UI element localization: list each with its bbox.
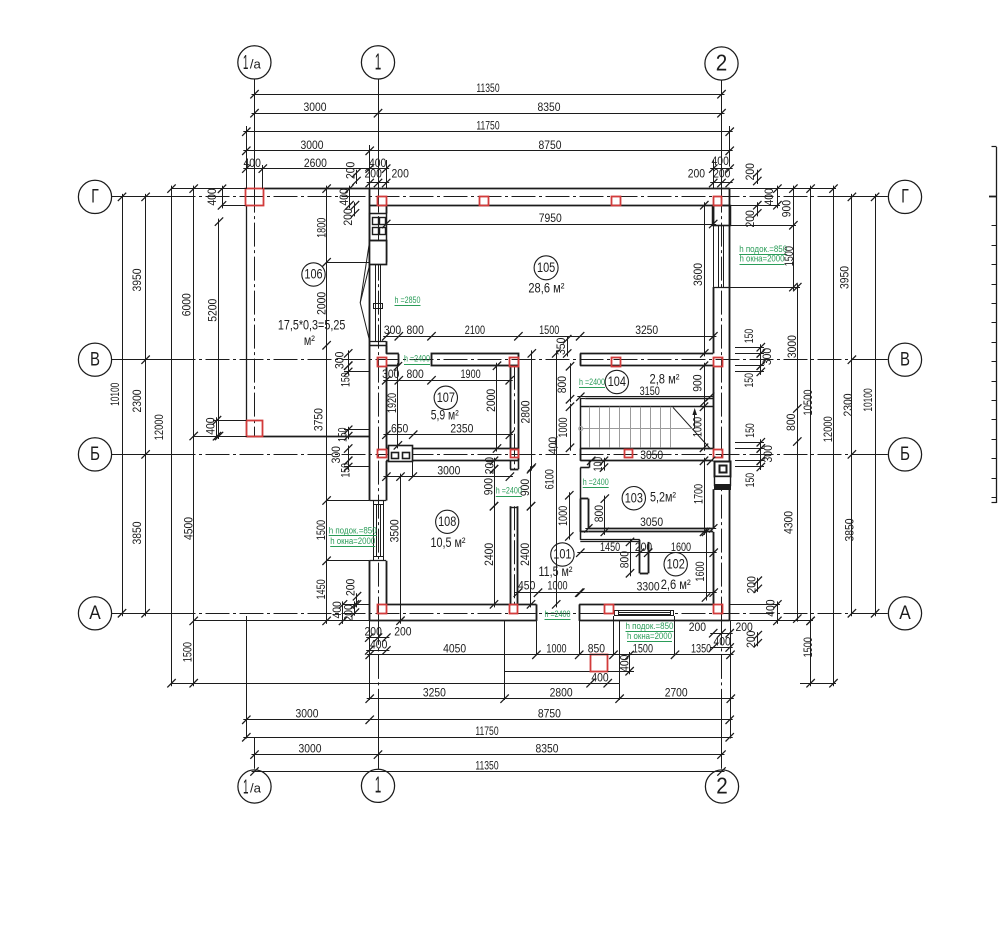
svg-text:100: 100 [591, 457, 605, 472]
axis bubble 1/a bottom [238, 770, 271, 803]
dim 400 porch col vertical [617, 651, 633, 676]
axis bubble В right [888, 343, 921, 376]
terrace bottom edge [247, 436, 370, 438]
dim 11750 bottom [242, 724, 734, 741]
vent shaft in Б wall [389, 446, 413, 462]
svg-text:11,5 м²: 11,5 м² [539, 564, 573, 579]
svg-text:300: 300 [384, 323, 402, 337]
dim 300 wall Б right [757, 444, 776, 465]
svg-text:h окна=2000: h окна=2000 [330, 536, 375, 547]
dim 900 room104 right [691, 362, 709, 407]
svg-text:1600: 1600 [671, 540, 691, 554]
svg-text:400: 400 [337, 188, 351, 206]
svg-text:10,5 м²: 10,5 м² [431, 535, 466, 550]
svg-text:3000: 3000 [304, 100, 327, 114]
dim 3150 stairs [576, 384, 714, 401]
dim 11350 top [250, 81, 725, 98]
svg-text:1600: 1600 [693, 561, 707, 581]
wall 101-102 divider band [580, 540, 640, 542]
svg-text:h =2400: h =2400 [583, 477, 609, 488]
svg-text:900: 900 [780, 200, 794, 218]
extension lines top [247, 96, 730, 189]
svg-text:200: 200 [689, 620, 707, 634]
svg-text:1: 1 [375, 48, 382, 74]
svg-text:2800: 2800 [550, 686, 573, 700]
svg-text:Г: Г [91, 187, 99, 208]
axis line Б [111, 454, 888, 456]
svg-text:h =2400: h =2400 [404, 354, 430, 365]
dim row В top 300..3250 [382, 323, 718, 340]
axis bubble 1/a top [238, 46, 271, 79]
svg-text:12000: 12000 [821, 416, 835, 442]
wall room103 left stub [580, 499, 588, 532]
dim 5200 left [205, 217, 223, 440]
svg-text:1500: 1500 [314, 520, 328, 540]
terrace area formula [278, 318, 346, 349]
porch outline [505, 621, 620, 683]
svg-text:Б: Б [90, 444, 100, 465]
column at А window pier [605, 605, 614, 614]
svg-text:900: 900 [518, 479, 532, 497]
svg-text:300: 300 [761, 445, 775, 463]
dim 200 left of wall1 top [343, 161, 360, 185]
wall Б segment left [386, 449, 519, 461]
axis bubble 1 bottom [361, 769, 394, 802]
wall centerline x514 [514, 366, 516, 605]
wall room108 right door cap [510, 507, 518, 509]
wall В segment 3250 [580, 353, 713, 365]
svg-text:3050: 3050 [640, 515, 663, 529]
svg-text:1500: 1500 [180, 642, 194, 662]
note h podok left [329, 525, 377, 536]
svg-text:300: 300 [332, 351, 346, 369]
svg-text:8750: 8750 [538, 707, 561, 721]
svg-text:2: 2 [716, 772, 728, 798]
dim 6100 corridor [543, 349, 561, 608]
room 105 label [528, 256, 564, 296]
column 400x400 at 1/a-Г [246, 189, 264, 206]
dim 3950+2300+3850 right [838, 193, 857, 618]
svg-text:1000: 1000 [546, 642, 566, 656]
axis line 1/a [254, 78, 256, 769]
column at Г axis2 [714, 197, 722, 206]
room 108 label [431, 510, 466, 550]
svg-text:200: 200 [744, 576, 758, 594]
dim 150 below В left [339, 362, 353, 387]
column at Г mid-left [480, 197, 489, 206]
dim 11750 top [242, 119, 734, 136]
svg-text:3050: 3050 [640, 448, 663, 462]
stair landing edge [580, 399, 713, 407]
svg-text:200: 200 [743, 210, 757, 228]
svg-text:400: 400 [617, 654, 631, 672]
svg-text:1000: 1000 [556, 417, 570, 437]
terrace left edge [246, 205, 248, 436]
svg-text:400: 400 [203, 417, 217, 435]
svg-text:3250: 3250 [635, 323, 658, 337]
svg-text:800: 800 [555, 376, 569, 394]
dim 900+1500 right of wall2 [780, 184, 798, 291]
svg-text:3000: 3000 [299, 741, 322, 755]
wall Б segment right [580, 449, 713, 461]
axis line А [111, 613, 888, 615]
svg-text:3250: 3250 [423, 686, 446, 700]
svg-text:150: 150 [742, 373, 756, 388]
svg-text:8750: 8750 [539, 138, 562, 152]
dim 11350 bottom [250, 758, 725, 775]
svg-text:800: 800 [784, 413, 798, 431]
svg-text:h окна=2000: h окна=2000 [740, 254, 785, 265]
axis bubble Б right [888, 438, 921, 471]
wall axis-1 (left exterior) [370, 189, 387, 621]
room 104 label [605, 370, 680, 393]
table edge right margin [989, 147, 997, 504]
svg-text:1900: 1900 [461, 367, 481, 381]
dim 400 wall Г right [762, 184, 781, 209]
svg-text:А: А [89, 603, 101, 624]
svg-text:102: 102 [667, 556, 685, 571]
svg-text:11350: 11350 [476, 81, 499, 95]
svg-text:1450: 1450 [314, 579, 328, 599]
dim 2400 wall108 right [518, 502, 535, 609]
column at В x514 [510, 358, 519, 367]
svg-text:2100: 2100 [465, 323, 485, 337]
svg-text:800: 800 [592, 505, 606, 523]
dim 10100 right [861, 193, 879, 618]
svg-text:450: 450 [518, 579, 536, 593]
svg-text:/а: /а [250, 781, 262, 796]
axis line 2 [721, 79, 723, 769]
svg-text:200: 200 [394, 624, 412, 638]
svg-text:28,6 м²: 28,6 м² [528, 281, 564, 296]
dim 1450+200+1600 room102 [576, 540, 718, 557]
dim 200+200 axis1 top [365, 167, 410, 188]
axis bubble Г left [78, 180, 111, 213]
dim 800 stairs door left [555, 362, 574, 403]
column at В mid [612, 358, 621, 367]
extension lines left [172, 189, 370, 621]
dim 1920 room107 left [385, 362, 402, 450]
stair risers [590, 407, 671, 448]
dim 3000+8750 top [242, 138, 734, 155]
pier box in axis-1 wall [370, 241, 387, 265]
svg-text:1920: 1920 [385, 393, 399, 413]
svg-text:200: 200 [341, 604, 355, 622]
svg-text:11750: 11750 [475, 724, 498, 738]
svg-text:800: 800 [407, 323, 425, 337]
column at А x514 [510, 605, 518, 614]
svg-text:200: 200 [713, 167, 731, 181]
dim 1500 bottom right [801, 617, 815, 688]
dim 800 room103 stub [592, 494, 609, 536]
dim 3000+800+4300 right [782, 283, 802, 623]
svg-text:1000: 1000 [556, 506, 570, 526]
column at А axis2 [714, 605, 723, 614]
svg-text:5,9 м²: 5,9 м² [431, 407, 459, 422]
svg-text:2: 2 [716, 49, 728, 75]
svg-text:1000: 1000 [547, 579, 567, 593]
note h podok right 1 [739, 244, 787, 255]
shaft extension line [412, 462, 414, 477]
svg-text:200: 200 [341, 208, 355, 226]
callout 400 near stairs [546, 437, 560, 455]
wall В stub at axis-1 [386, 346, 399, 366]
window WА (А wall) [615, 611, 674, 616]
svg-text:А: А [899, 603, 911, 624]
dim 1600 room102 right [693, 528, 710, 602]
svg-text:103: 103 [625, 490, 643, 505]
note h podok bottom [626, 621, 674, 632]
svg-text:300: 300 [329, 446, 343, 464]
svg-text:2350: 2350 [450, 422, 473, 436]
wall room108 right [511, 506, 518, 604]
svg-text:3750: 3750 [312, 408, 326, 431]
dim 150 above Б right [743, 423, 765, 453]
svg-text:850: 850 [588, 642, 606, 656]
svg-text:3850: 3850 [130, 521, 144, 544]
extension lines bottom [247, 616, 731, 769]
svg-text:400: 400 [546, 437, 560, 455]
svg-text:105: 105 [537, 260, 555, 275]
window W108 (axis-1 wall) [370, 501, 387, 561]
dim 400 wall А left [330, 600, 347, 625]
terrace top edge [264, 188, 370, 190]
dim 400 wall2 top [709, 154, 734, 173]
dim 6000+4500+1500 left [179, 184, 197, 687]
svg-text:1350: 1350 [691, 642, 711, 656]
svg-text:400: 400 [764, 599, 778, 617]
svg-text:8350: 8350 [536, 741, 559, 755]
note h=2850 [395, 295, 421, 306]
dim 400 wall А right [764, 599, 782, 625]
svg-text:300: 300 [760, 348, 774, 366]
svg-text:400: 400 [370, 637, 388, 651]
svg-text:400: 400 [205, 188, 219, 206]
dim 400 wall Г left [205, 185, 226, 210]
svg-text:200: 200 [635, 540, 653, 554]
svg-text:1500: 1500 [782, 246, 796, 266]
wall А (bottom exterior) [370, 604, 730, 621]
svg-text:1700: 1700 [691, 484, 705, 504]
svg-text:2000: 2000 [484, 389, 498, 412]
svg-text:200: 200 [365, 624, 383, 638]
axis bubble 2 top [705, 47, 738, 80]
svg-text:1: 1 [243, 52, 249, 74]
dim 400 terrace col [203, 416, 221, 440]
svg-text:3000: 3000 [437, 463, 460, 477]
column at Б mid [625, 450, 633, 458]
wall corridor edge x580 [580, 468, 582, 540]
svg-text:2700: 2700 [665, 686, 688, 700]
svg-text:10500: 10500 [801, 389, 815, 415]
svg-text:150: 150 [743, 423, 757, 438]
svg-text:h =2400: h =2400 [579, 377, 605, 388]
dim 400 porch column [586, 671, 612, 688]
svg-text:1500: 1500 [539, 323, 559, 337]
svg-text:h =2850: h =2850 [395, 295, 421, 306]
dim 150 below Б right [743, 457, 765, 488]
column at Б x514 [511, 450, 519, 458]
svg-text:800: 800 [618, 551, 632, 569]
dim 1700 room103 right [691, 457, 708, 536]
svg-text:7950: 7950 [539, 211, 562, 225]
svg-text:3150: 3150 [640, 384, 660, 398]
svg-text:2300: 2300 [130, 389, 144, 412]
svg-text:10100: 10100 [108, 382, 122, 405]
svg-text:17,5*0,3=5,25: 17,5*0,3=5,25 [278, 318, 346, 333]
dim 200+200 axis2 top [688, 167, 734, 188]
svg-text:200: 200 [343, 161, 357, 179]
svg-text:2600: 2600 [304, 156, 327, 170]
svg-text:5,2м²: 5,2м² [650, 490, 676, 505]
dim 2400 wall108 left [482, 502, 498, 609]
wall room103 bottom [588, 529, 713, 532]
svg-text:2400: 2400 [518, 543, 532, 566]
axis bubble А right [888, 597, 921, 630]
svg-text:2000: 2000 [314, 292, 328, 315]
dim 300 wall В right [757, 348, 774, 370]
dim 300 near wall Б left [329, 444, 353, 465]
room 101 label [539, 543, 575, 579]
svg-text:В: В [900, 349, 910, 370]
step 100 below Б at stairs [580, 461, 589, 468]
svg-text:2,6 м²: 2,6 м² [661, 577, 691, 592]
svg-text:Б: Б [900, 444, 910, 465]
svg-text:3000: 3000 [301, 138, 324, 152]
svg-text:2400: 2400 [482, 543, 496, 566]
dim 12000 left [152, 184, 176, 687]
vent shaft axis-1 below Г [370, 214, 387, 241]
dim 3300 + 450 1000 [514, 579, 584, 597]
svg-text:3950: 3950 [130, 268, 144, 291]
dim 3250+2800+2700 bottom [366, 686, 736, 703]
svg-text:900: 900 [691, 374, 705, 392]
dim 200+200 axis2 bottom [689, 620, 753, 637]
dim 400 near wall Г [337, 184, 354, 209]
dim 900 door108 right [518, 465, 535, 510]
svg-text:1000: 1000 [691, 417, 705, 437]
svg-text:м²: м² [304, 333, 315, 348]
svg-text:107: 107 [437, 390, 455, 405]
dim 100 step below Б [591, 457, 608, 472]
svg-text:3000: 3000 [785, 335, 799, 358]
dim 650+2350 room107 [382, 422, 514, 439]
svg-text:1: 1 [375, 772, 382, 798]
svg-text:4050: 4050 [443, 642, 466, 656]
column at Г axis1 [378, 197, 387, 206]
svg-text:3500: 3500 [387, 519, 401, 542]
note h okna bottom [627, 631, 672, 642]
dim 3500 room108 left [387, 472, 404, 625]
svg-text:1500: 1500 [633, 642, 653, 656]
dim 10500 right [801, 184, 815, 625]
stair break line [673, 407, 711, 449]
dim 3950+2300+3850 left [130, 193, 150, 618]
pier below Г at axis 2 [713, 206, 731, 226]
dim 12000 right [821, 184, 838, 687]
dim 3000+8750 bottom [242, 707, 734, 724]
svg-text:6100: 6100 [543, 469, 557, 489]
svg-text:11750: 11750 [476, 119, 499, 133]
dim row 300+800+1900 room107 [382, 367, 514, 384]
room 107 label [431, 386, 459, 422]
svg-text:150: 150 [339, 463, 353, 478]
note h=2400 (room 108 door) [496, 486, 522, 497]
dim 200 below Г right [743, 201, 762, 228]
vent box axis-2 below Б [715, 462, 731, 490]
wall axis-2 (right exterior) [714, 189, 730, 621]
dim 200 below А-axis left [341, 600, 359, 621]
stair block left edge [580, 407, 582, 449]
svg-text:h подок.=850: h подок.=850 [329, 525, 377, 536]
dim 3600 room105 right [691, 201, 708, 358]
dim 1000 stairs left [556, 403, 574, 453]
dim 10100 left [108, 193, 126, 618]
dim 2800 corridor [518, 349, 536, 472]
svg-text:650: 650 [391, 422, 409, 436]
column at Г mid-right [612, 197, 621, 206]
axis bubble Б left [78, 438, 111, 471]
svg-text:3300: 3300 [637, 580, 660, 594]
svg-text:11350: 11350 [475, 758, 498, 772]
wall В segment 2100 [432, 354, 519, 366]
svg-text:150: 150 [742, 329, 756, 344]
window W1 (terrace, axis-1 wall) [360, 241, 386, 342]
dim 350 В opening [554, 335, 571, 358]
dim 7950 room105 [382, 211, 717, 228]
svg-text:3600: 3600 [691, 263, 705, 286]
column 400x400 terrace corner [247, 421, 263, 437]
svg-text:900: 900 [481, 478, 495, 496]
note h=2400 (room 104) [579, 377, 605, 388]
dim 200 right of wall2 top [743, 163, 762, 185]
axis line В [111, 359, 888, 361]
dim 200 above А left [343, 578, 361, 608]
dim 3000+8350 top [250, 100, 725, 117]
axis line Г [111, 196, 888, 198]
dim 200+200 axis1 bottom [365, 624, 412, 641]
column at В axis1 [378, 358, 387, 367]
svg-text:200: 200 [365, 167, 383, 181]
stair direction arrow [579, 408, 697, 431]
svg-text:800: 800 [406, 367, 424, 381]
wall ledge y345.8 [370, 345, 387, 347]
svg-text:400: 400 [591, 671, 609, 685]
axis bubble А left [78, 597, 111, 630]
svg-text:1800: 1800 [314, 217, 328, 237]
svg-text:/а: /а [250, 57, 262, 72]
dim 150 below В right [742, 362, 765, 388]
wall room108 right stub below Б [510, 461, 518, 470]
svg-text:4500: 4500 [182, 517, 196, 540]
dim 200 above А right [744, 576, 762, 594]
column at Б axis1 [378, 450, 387, 458]
note h=2400 (room 103) [583, 477, 609, 488]
svg-text:200: 200 [744, 630, 758, 648]
wall Г (top exterior) [370, 189, 730, 206]
dim 400+2600 top [242, 156, 390, 173]
svg-text:3850: 3850 [843, 518, 857, 541]
dim 150 below Б left [339, 457, 353, 478]
column at В axis2 [714, 358, 723, 367]
window W105 (axis-2 wall) [713, 225, 730, 287]
note h=2400 (А wall) [545, 609, 571, 620]
note h=2400 (В axis1) [404, 354, 430, 365]
svg-text:1500: 1500 [801, 637, 815, 657]
svg-text:4300: 4300 [782, 511, 796, 534]
svg-text:200: 200 [343, 578, 357, 596]
porch bottom long line [172, 683, 620, 685]
